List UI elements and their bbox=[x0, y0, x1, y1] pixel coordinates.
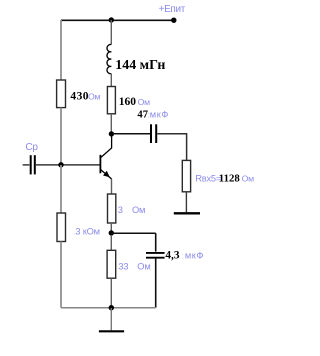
wire inductor to R 160 bbox=[110, 74, 112, 87]
svg-text:Ом: Ом bbox=[137, 262, 150, 272]
resistor 430 Ом bbox=[57, 80, 66, 108]
wire emitter node to C 4.3 branch bbox=[111, 232, 155, 234]
svg-text:Ом: Ом bbox=[88, 92, 101, 102]
svg-text:.3 кОм: .3 кОм bbox=[73, 227, 100, 237]
transistor VT1 collector lead bbox=[101, 135, 112, 158]
transistor VT1 base bar bbox=[99, 155, 101, 174]
svg-text:1128: 1128 bbox=[219, 173, 241, 185]
transistor VT1 emitter lead bbox=[101, 170, 112, 179]
wire Rвх5 to ground bbox=[185, 192, 187, 213]
svg-text::: : bbox=[182, 250, 184, 260]
wire C 47 to Rin corner bbox=[157, 134, 186, 161]
svg-text:4,3: 4,3 bbox=[165, 250, 179, 262]
wire collector node to C 47 bbox=[111, 133, 150, 135]
node collector bbox=[109, 131, 114, 136]
ground bottom bbox=[99, 330, 124, 332]
resistor 160 Ом bbox=[107, 87, 115, 114]
svg-text:мкФ: мкФ bbox=[150, 110, 169, 120]
node emitter junction bbox=[109, 230, 114, 235]
svg-text:160: 160 bbox=[119, 96, 137, 108]
resistor Rвх5 bbox=[182, 160, 190, 191]
wire R 3 to emitter node bbox=[110, 223, 112, 231]
capacitor 47 мкФ bbox=[150, 124, 152, 143]
svg-text:Ом: Ом bbox=[138, 97, 151, 107]
svg-text:430: 430 bbox=[70, 91, 89, 103]
svg-text:Rвх5=: Rвх5= bbox=[195, 174, 221, 184]
wire left vertical mid (R 430 to input node) bbox=[60, 108, 62, 165]
resistor 3 Ом bbox=[108, 194, 116, 223]
wire R 160 to collector node bbox=[110, 114, 112, 133]
svg-text:144 мГн: 144 мГн bbox=[115, 58, 165, 73]
capacitor Cp bbox=[30, 155, 32, 174]
svg-text:+Епит: +Епит bbox=[159, 4, 186, 15]
node bottom junction bbox=[109, 305, 114, 310]
resistor 33 Ом bbox=[107, 250, 116, 278]
wire left vertical bottom (R 3k to bottom rail) bbox=[60, 242, 62, 308]
inductor 144 мГн bbox=[107, 44, 111, 73]
svg-text:3: 3 bbox=[118, 205, 123, 215]
wire left vertical lower (input node to R 3k) bbox=[60, 165, 62, 213]
wire C 4.3 branch upper bbox=[155, 233, 157, 251]
svg-text:Ом: Ом bbox=[132, 205, 145, 215]
wire bottom node to ground bbox=[110, 308, 112, 330]
node collector-branch top junction bbox=[109, 17, 114, 22]
wire base wire (Cp to transistor base) bbox=[36, 164, 100, 166]
node input junction bbox=[58, 162, 63, 167]
wire collector branch top (rail to inductor) bbox=[110, 20, 112, 45]
wire bottom rail bbox=[61, 307, 156, 309]
wire input stub left of Cp bbox=[23, 164, 30, 166]
ground right bbox=[174, 212, 200, 214]
wire top power rail bbox=[61, 19, 174, 21]
svg-text:мкФ: мкФ bbox=[185, 251, 204, 261]
wire emitter node to R 33 bbox=[110, 235, 112, 250]
svg-text:Ср: Ср bbox=[25, 142, 38, 153]
wire emitter to R 3 bbox=[111, 179, 113, 194]
wire left vertical upper (rail to R 430) bbox=[60, 20, 62, 80]
transistor VT1 emitter arrow bbox=[104, 172, 109, 177]
wire R 33 to bottom rail bbox=[110, 278, 112, 307]
capacitor 4,3 мкФ bbox=[146, 252, 165, 254]
node +Epit terminal bbox=[171, 18, 176, 23]
svg-text:33: 33 bbox=[118, 262, 128, 272]
svg-text:Ом: Ом bbox=[242, 174, 255, 184]
resistor 3 кОм bbox=[57, 213, 66, 242]
wire C 4.3 branch lower bbox=[155, 259, 157, 308]
